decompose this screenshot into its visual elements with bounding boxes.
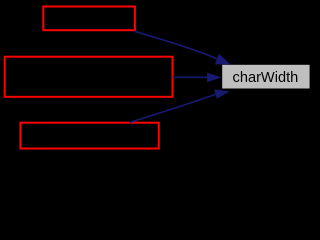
edge bottom->charWidth wire	[129, 94, 216, 122]
node middle (red box, label hidden on black)	[5, 57, 173, 97]
edge middle->charWidth arrowhead	[207, 73, 222, 83]
edge bottom->charWidth arrowhead	[214, 89, 230, 98]
edge middle->charWidth wire	[173, 76, 208, 78]
node bottom (red box, label hidden on black)	[20, 123, 158, 149]
edge top->charWidth wire	[134, 31, 217, 59]
edge top->charWidth arrowhead	[215, 54, 231, 65]
node top (red box, label hidden on black)	[43, 7, 135, 31]
svg-text:charWidth: charWidth	[233, 70, 299, 86]
node charWidth (gray filled)	[222, 65, 309, 89]
